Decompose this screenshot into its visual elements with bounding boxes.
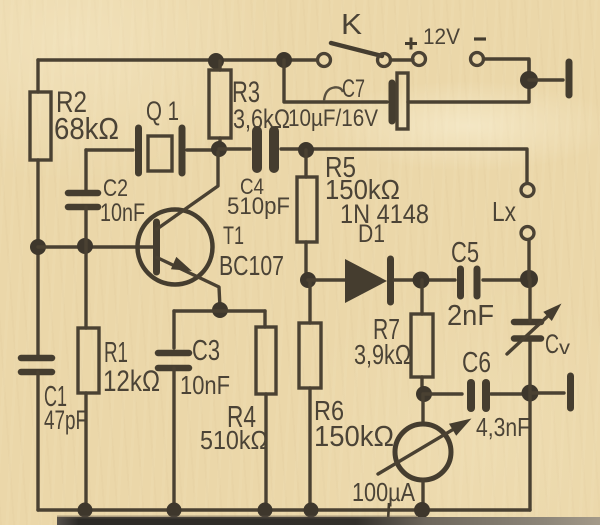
svg-text:Lx: Lx [492, 196, 516, 227]
capacitor C4 [257, 131, 274, 168]
svg-text:T1: T1 [223, 222, 244, 250]
svg-text:47pF: 47pF [44, 405, 87, 435]
resistor R3 [209, 70, 231, 138]
node R3 top [208, 53, 224, 69]
svg-text:10nF: 10nF [100, 199, 145, 227]
squiggle mark [324, 87, 343, 101]
svg-text:510kΩ: 510kΩ [200, 425, 268, 455]
wire R7 top stub [420, 280, 423, 314]
wire R6 top / R7 risers [308, 280, 311, 323]
svg-text:3,9kΩ: 3,9kΩ [354, 339, 411, 370]
svg-text:Q 1: Q 1 [146, 96, 179, 126]
capacitor C6 [471, 383, 486, 408]
wire D1 anode [308, 278, 345, 281]
svg-text:C3: C3 [192, 335, 220, 367]
wire switch to plus [391, 58, 414, 61]
svg-text:C: C [545, 329, 559, 359]
switch K [318, 43, 391, 67]
wire left rail lower [36, 372, 39, 510]
wire C3 top [172, 311, 175, 348]
wire C6 right [491, 392, 530, 395]
node R1 bottom rail [78, 503, 93, 518]
node meter bottom rail [414, 502, 430, 518]
wire R5 top stub [304, 150, 307, 177]
wire crystal right [187, 148, 219, 151]
wire base wire [38, 245, 153, 248]
resistor R6 [299, 323, 321, 388]
resistor R2 [30, 92, 51, 160]
wire C5 right [483, 278, 529, 281]
svg-text:100µA: 100µA [352, 477, 416, 507]
svg-text:K: K [341, 9, 363, 41]
terminal Lx top [521, 184, 534, 197]
wire R3 bottom stub [218, 138, 221, 149]
svg-text:4,3nF: 4,3nF [476, 412, 530, 442]
ground upper right [566, 62, 573, 95]
svg-text:12V: 12V [423, 24, 460, 49]
node R5 top [298, 142, 314, 158]
node R4 bottom rail [258, 503, 273, 518]
node base-left junction [30, 239, 46, 255]
scan edge band [57, 516, 600, 525]
wire right column [528, 393, 531, 510]
node C7 branch top [276, 52, 292, 68]
svg-text:68kΩ: 68kΩ [54, 111, 119, 146]
node C2-R1 junction [77, 238, 93, 254]
minus sign [474, 37, 486, 40]
resistor R5 [297, 177, 317, 242]
node detector junction [300, 272, 316, 288]
resistor R1 [78, 328, 99, 393]
node C6 right junction [522, 385, 539, 402]
capacitor C3 [158, 353, 189, 368]
capacitor Cv variable [507, 304, 562, 355]
node emitter junction [212, 302, 228, 318]
node meter top junction [416, 386, 432, 402]
wire R1 bottom [84, 393, 87, 510]
wire C7 right branch [408, 60, 529, 102]
wire ground stub upper [529, 78, 563, 81]
wire left rail middle [36, 160, 39, 355]
wire Cv bottom stub [528, 338, 531, 393]
svg-text:C6: C6 [462, 347, 491, 379]
wire C7 left branch [284, 60, 387, 102]
meter M1 [378, 394, 472, 510]
wire Cv top stub [528, 279, 531, 321]
svg-text:v: v [559, 338, 571, 359]
terminal plus [413, 53, 426, 66]
transistor T1 [138, 152, 221, 308]
capacitor C1 [21, 358, 52, 372]
node Cv top junction [520, 270, 538, 288]
wire R5 bottom stub [304, 242, 307, 280]
resistor R4 [256, 327, 276, 394]
terminal minus [471, 53, 484, 66]
capacitor C2 [68, 193, 98, 207]
svg-text:D1: D1 [358, 220, 385, 248]
resistor R7 [411, 314, 433, 377]
wire left rail upper [36, 60, 39, 92]
svg-text:C5: C5 [451, 237, 479, 269]
wire C4 to Lx corner [281, 149, 527, 183]
node R6 bottom rail [304, 503, 319, 518]
wire Lx bottom stub [527, 240, 530, 279]
svg-text:510pF: 510pF [227, 193, 290, 220]
node C3 bottom rail [167, 503, 182, 518]
svg-text:10nF: 10nF [180, 370, 230, 400]
node ground junction [520, 71, 538, 89]
node collector junction [211, 141, 227, 157]
wire ground stub lower [530, 391, 564, 394]
svg-text:10µF/16V: 10µF/16V [288, 105, 378, 132]
wire R3 top stub [218, 61, 221, 70]
wire crystal left [86, 148, 133, 151]
wire crystal left drop [84, 150, 87, 192]
wire emitter rail [174, 309, 265, 312]
svg-text:BC107: BC107 [219, 250, 284, 281]
wire top rail [38, 58, 317, 61]
diode D1 [345, 259, 391, 303]
node R7 top [413, 272, 430, 289]
wire D1 cathode [394, 278, 455, 281]
svg-text:2nF: 2nF [447, 300, 494, 332]
wire minus to ground [484, 59, 530, 80]
wire R6 bottom [308, 388, 311, 510]
svg-text:12kΩ: 12kΩ [103, 365, 160, 398]
wire C4 left [219, 147, 250, 150]
wire bottom rail [38, 508, 530, 511]
ground lower right [567, 376, 574, 408]
wire C6 left [424, 392, 462, 395]
wire C2 to base [84, 207, 87, 247]
wire R4 bottom [264, 394, 267, 510]
wire R7 bottom stub [420, 377, 423, 394]
plus sign [405, 38, 417, 50]
svg-text:C2: C2 [103, 175, 128, 202]
svg-text:C7: C7 [342, 75, 365, 103]
terminal Lx bottom [521, 227, 534, 240]
wire R1 top [84, 247, 87, 328]
wire R4 top [263, 311, 266, 327]
wire C3 bottom [172, 368, 175, 510]
capacitor C7 electrolytic [392, 73, 408, 129]
crystal Q1 [139, 128, 183, 173]
svg-text:150kΩ: 150kΩ [314, 421, 394, 453]
capacitor C5 [461, 269, 478, 296]
